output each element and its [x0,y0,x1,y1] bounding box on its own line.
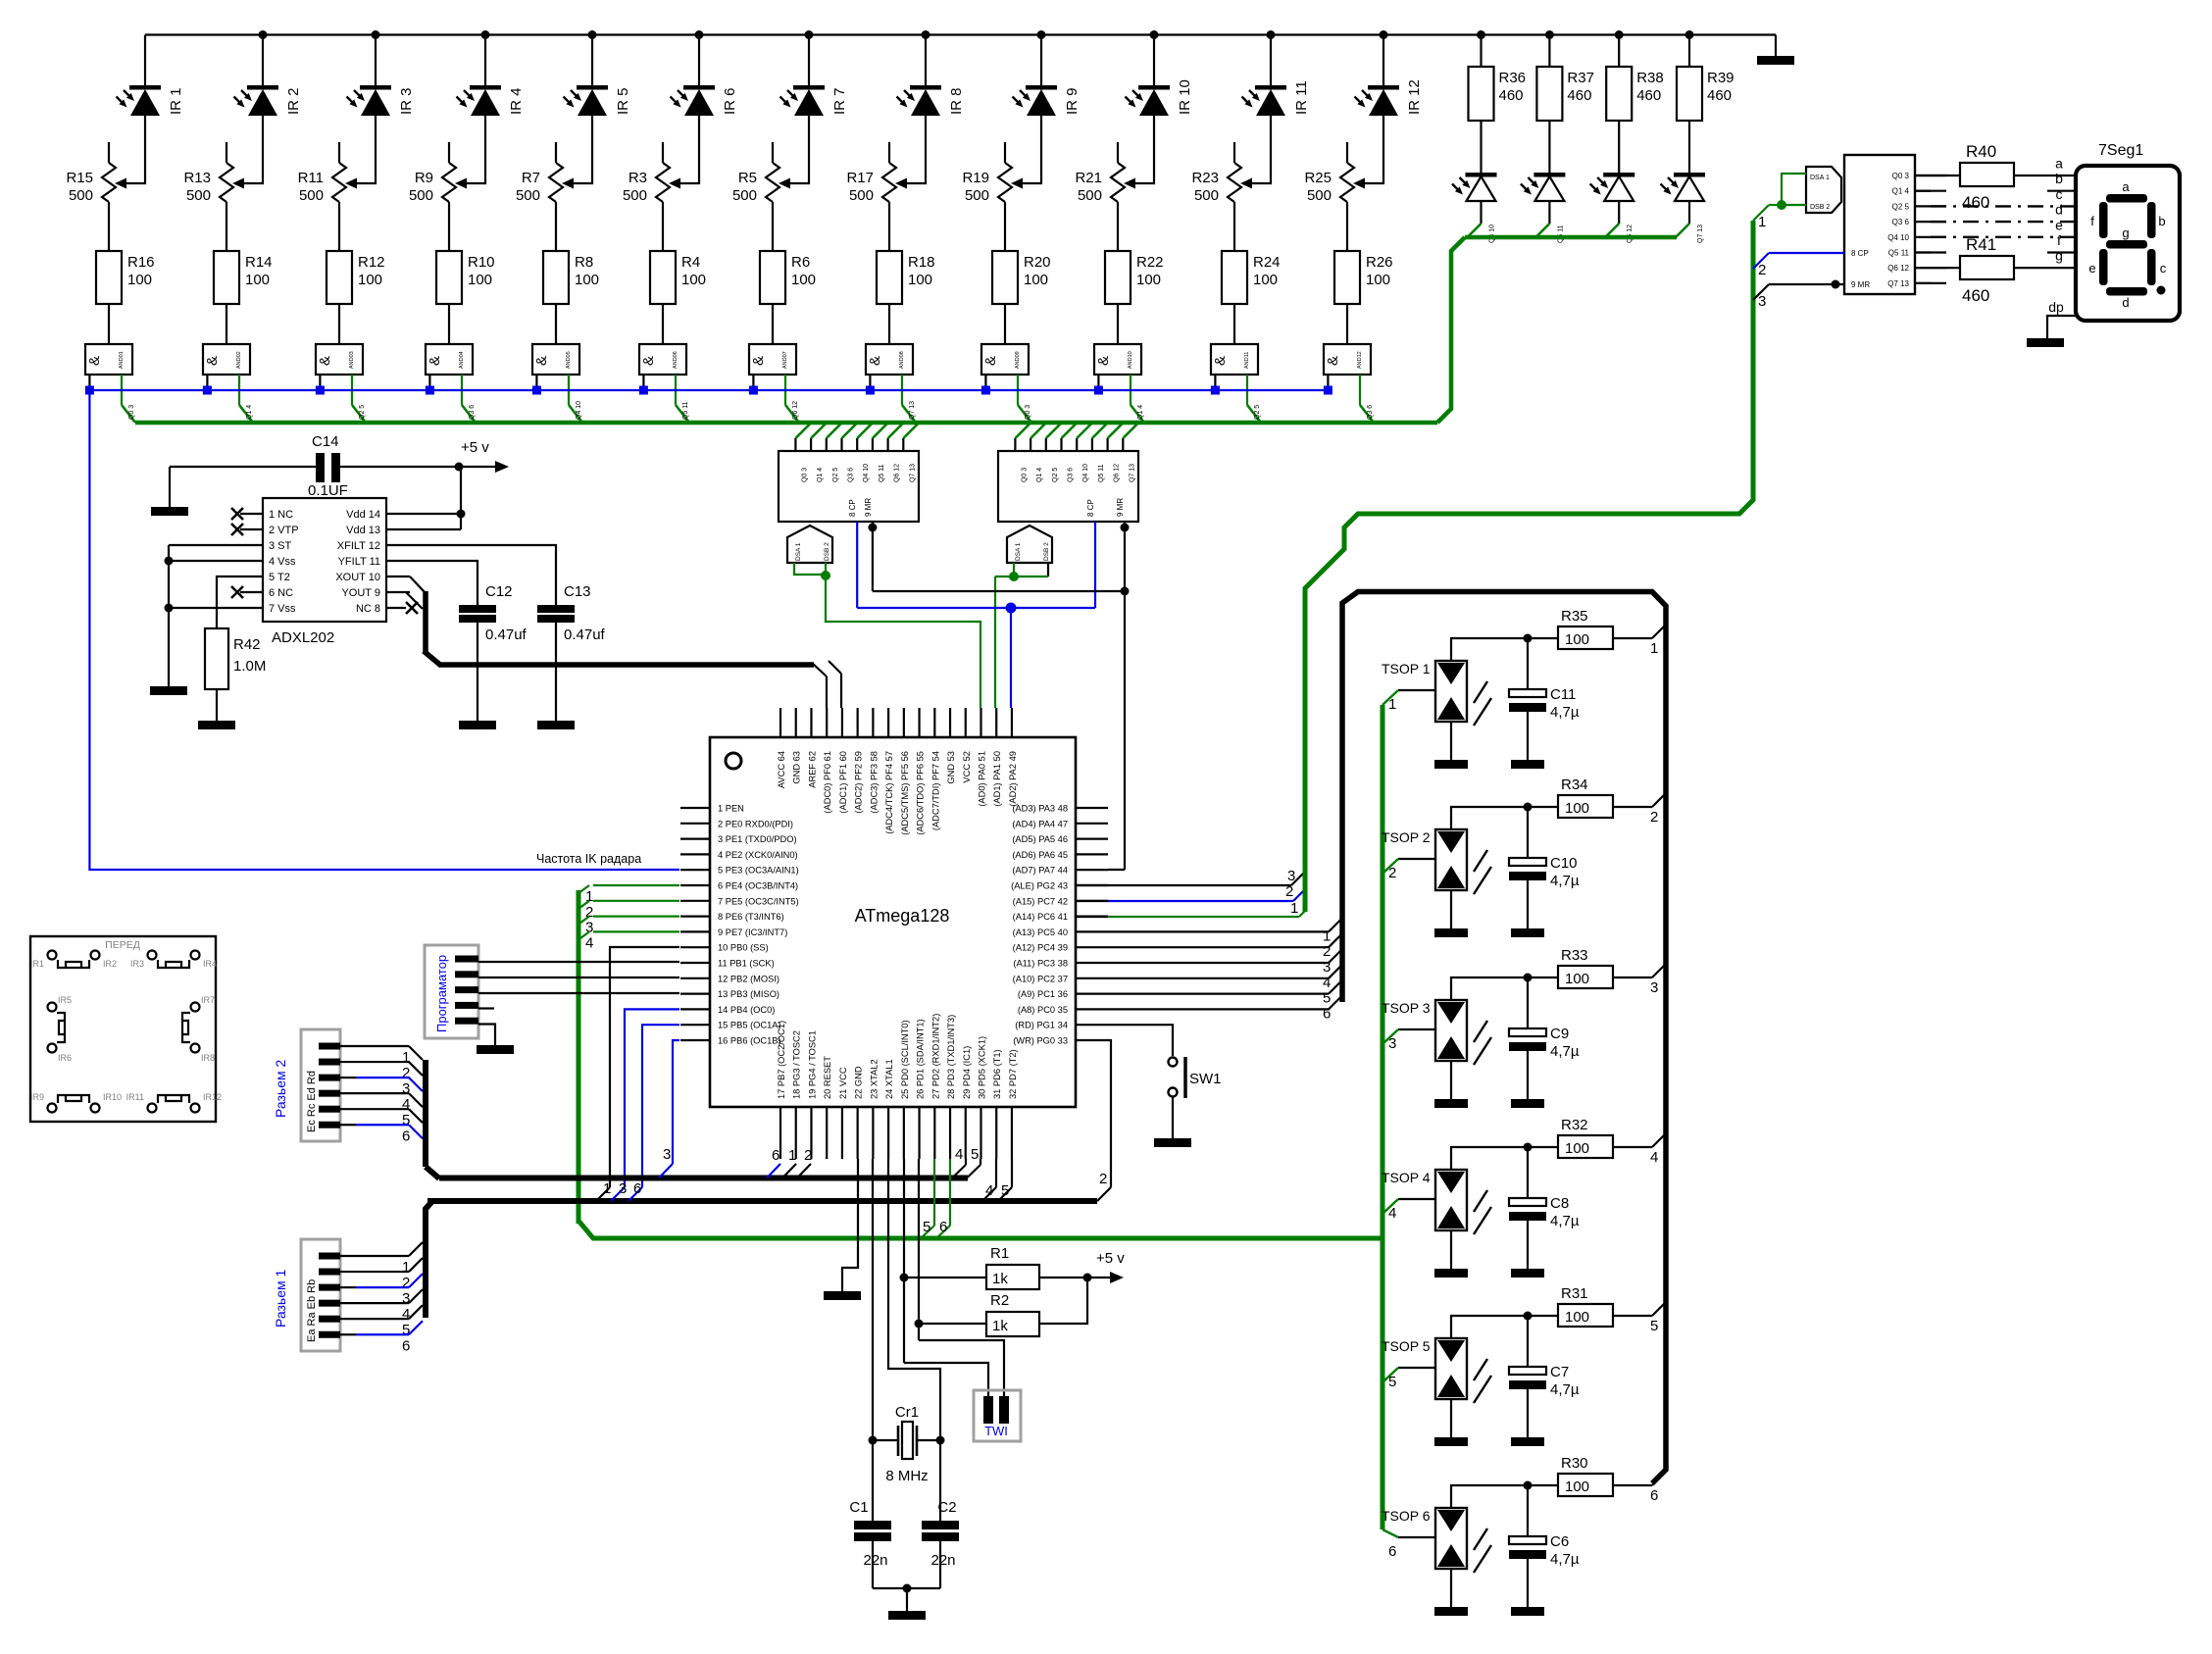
svg-text:6: 6 [402,1337,410,1354]
node blue bus junction ch8 [866,386,875,395]
svg-text:Q0 3: Q0 3 [128,405,135,420]
wire R26 to AND gate [1346,304,1348,344]
pin 2 VTP of ADXL202 [240,528,263,530]
wire AND05 output B to green bus, net Q4 10 [568,375,570,405]
wire MR to ATmega pin 44 [1124,591,1126,870]
svg-text:DSA 1: DSA 1 [795,542,802,561]
LED indicator 3 [1603,173,1634,177]
LED IR8 [910,85,941,90]
node bus junction R38 [1615,30,1624,39]
wire PB6 OC1B blue [673,1040,679,1164]
no-connect cross [231,524,243,535]
svg-text:(ADC0) PF0 61: (ADC0) PF0 61 [823,751,832,814]
LED IR11 [1255,85,1286,90]
svg-text:2 PE0 RXD0/(PDI): 2 PE0 RXD0/(PDI) [718,819,793,828]
wire LED 2 to green bus, net Q5 11 [1548,201,1550,224]
wire U2 output Q7 13 to green bus [1122,438,1124,451]
wire U1 output Q4 10 to green bus [856,438,858,451]
svg-text:2: 2 [804,1147,812,1164]
ground C11 [1511,760,1544,769]
wire LED 1 to green bus, net Q4 10 [1480,201,1482,224]
svg-text:9 MR: 9 MR [1851,280,1870,289]
svg-text:R11: R11 [298,170,324,186]
wire channel 1 from bus to LED [144,35,146,88]
wire U2 output Q4 10 to green bus [1076,438,1078,451]
svg-text:500: 500 [1078,187,1102,204]
wire green bus riser connecting AND bus to LED bus [1437,237,1465,423]
svg-text:R17: R17 [846,170,874,186]
svg-text:C8: C8 [1550,1195,1569,1212]
ground C13 [537,721,575,729]
wire ST/Vss to ground rail [169,544,240,546]
svg-text:Q6 12: Q6 12 [1114,464,1121,482]
wire green bus (register outputs) [135,421,1437,426]
svg-text:DSB 2: DSB 2 [1810,204,1830,211]
wire net3 MR to U3 [1753,284,1769,300]
potentiometer R21 500 [1117,142,1119,163]
segment c [2147,249,2156,285]
wire channel 3 from bus to LED [375,35,377,88]
svg-text:IR10: IR10 [103,1092,122,1102]
svg-text:TWI: TWI [984,1424,1008,1438]
svg-text:(ADC2) PF2 59: (ADC2) PF2 59 [854,751,864,814]
pin 3 PE1 (TXD0/PDO) of ATmega128 [680,837,710,839]
crystal Cr1 8 MHz [873,1439,898,1441]
wire TSOP 3 input from green bus [1398,1028,1435,1030]
svg-text:500: 500 [1194,187,1219,204]
svg-text:100: 100 [1565,1140,1589,1157]
pin (A10) PC2 37 of ATmega128 [1076,977,1108,979]
svg-text:1: 1 [1650,640,1658,657]
wire TSOP 6 input from green bus [1398,1536,1435,1538]
ground C8 [1511,1269,1544,1278]
pin 6 NC of ADXL202 [240,591,263,593]
wire AND11 output A to blue bus [1214,375,1216,390]
svg-text:22 GND: 22 GND [854,1066,864,1099]
svg-text:(AD0) PA0 51: (AD0) PA0 51 [977,751,986,807]
wire LED 3 to green bus, net Q6 12 [1618,201,1620,224]
svg-text:Q7 13: Q7 13 [909,401,916,420]
pin (WR) PG0 33 of ATmega128 [1076,1039,1108,1041]
svg-text:R33: R33 [1561,947,1588,964]
wire U1 output Q5 11 to green bus [872,438,874,451]
svg-text:&: & [640,356,657,366]
pin 12 PB2 (MOSI) of ATmega128 [680,977,710,979]
wire bus2 taps [596,1187,610,1201]
svg-text:1: 1 [1323,927,1331,944]
wire U2 output Q5 11 to green bus [1091,438,1093,451]
segment d [2106,287,2147,296]
LED IR12 [1368,85,1399,90]
svg-text:500: 500 [965,187,989,204]
svg-text:IR4: IR4 [203,959,217,969]
wire AND06 output A to blue bus [642,375,644,390]
capacitor C11 4,7u [1527,638,1529,689]
wire green TSOP bus [1381,705,1385,1529]
svg-text:14 PB4 (OC0): 14 PB4 (OC0) [718,1005,775,1015]
wire AND08 output B to green bus, net Q7 13 [901,375,903,405]
svg-text:AND06: AND06 [673,351,679,369]
wire AND04 output B to green bus, net Q3 6 [461,375,463,405]
svg-text:AND02: AND02 [236,351,242,369]
wire pin Q7 stub [1915,282,1931,284]
svg-text:Q5 11: Q5 11 [1098,464,1105,482]
svg-text:IR1: IR1 [30,959,44,969]
wire TSOP 4 out to R and C [1451,1147,1558,1170]
svg-text:R2: R2 [990,1292,1009,1309]
svg-text:4: 4 [985,1182,993,1199]
svg-text:AND10: AND10 [1128,351,1133,369]
pin 5 of Разьем 1 [319,1316,340,1323]
svg-text:IR5: IR5 [58,995,72,1005]
no-connect cross [231,586,243,598]
svg-text:5: 5 [1650,1318,1658,1334]
wire IR6 cathode to pot wiper [673,116,699,183]
svg-text:IR 11: IR 11 [1293,80,1310,115]
wire AND04 output A to blue bus [428,375,430,390]
pin (A13) PC5 40 of ATmega128 [1076,930,1108,932]
wire top supply bus [145,33,1776,35]
pin 11 PB1 (SCK) of ATmega128 [680,962,710,964]
pin (A12) PC4 39 of ATmega128 [1076,946,1108,948]
svg-text:R39: R39 [1707,70,1734,86]
svg-text:R32: R32 [1561,1117,1588,1133]
svg-text:Q5 11: Q5 11 [1557,225,1564,243]
wire Програматор pin5 to ground [478,1025,495,1046]
svg-text:0.1UF: 0.1UF [308,482,348,499]
svg-text:3: 3 [619,1180,627,1197]
wire R16 to AND gate [108,304,110,344]
svg-text:(A13) PC5 40: (A13) PC5 40 [1013,927,1068,937]
pin 19 PG4 / TOSC1 of ATmega128 [810,1107,812,1159]
svg-text:IR 9: IR 9 [1064,87,1081,115]
svg-text:4,7µ: 4,7µ [1550,1381,1580,1398]
wire PD1 SDA down [918,1159,920,1340]
component IR5/IR6 [48,1003,57,1012]
pin 10 PB0 (SS) of ATmega128 [680,946,710,948]
svg-text:6: 6 [1650,1487,1658,1504]
svg-text:c: c [2160,261,2167,276]
wire U1 output Q7 13 to green bus [902,438,904,451]
svg-text:C14: C14 [312,433,339,450]
resistor R41 460 [1915,267,1960,269]
svg-text:(WR) PG0 33: (WR) PG0 33 [1013,1036,1068,1046]
svg-text:(ADC4/TCK) PF4 57: (ADC4/TCK) PF4 57 [884,751,894,834]
resistor R6 100 [760,251,785,304]
svg-text:R15: R15 [66,170,93,186]
wire U2 DSA/DSB to ATmega PA1, net DS2 [1013,563,1015,576]
pin 7 Vss of ADXL202 [240,607,263,609]
node blue bus junction ch1 [85,386,94,395]
svg-text:100: 100 [575,272,599,288]
svg-text:R25: R25 [1304,170,1332,186]
svg-text:AND01: AND01 [119,351,125,369]
svg-text:4: 4 [1650,1149,1658,1166]
svg-text:R40: R40 [1966,142,1996,161]
svg-text:Q3 6: Q3 6 [469,405,476,420]
node junction TSOP 3 [1524,974,1533,982]
wire U1 output Q6 12 to green bus [886,438,888,451]
capacitor C1 22n [872,1440,874,1521]
svg-text:8 CP: 8 CP [1851,249,1869,258]
pin 16 PB6 (OC1B) of ATmega128 [680,1039,710,1041]
component IR3/IR4 [148,951,157,960]
shift register U1 [779,451,919,522]
wire PD2/PD3 green taps to green bus [933,1159,935,1226]
wire SW1 to ground [1172,1097,1174,1138]
svg-text:C9: C9 [1550,1026,1569,1042]
svg-text:1k: 1k [992,1271,1008,1287]
wire R22 to AND gate [1117,304,1119,344]
pin 4 of Разьем 1 [319,1300,340,1307]
pin 7 PE5 (OC3C/INT5) of ATmega128 [680,900,710,902]
capacitor C12 0.47uf [459,605,496,613]
svg-text:(AD2) PA2 49: (AD2) PA2 49 [1008,751,1018,807]
AND gate AND04 [426,344,473,375]
wire bundle Разьем 1 to bus2 [426,1201,432,1318]
svg-text:Q3 6: Q3 6 [1892,218,1910,226]
svg-text:3: 3 [1388,1035,1396,1052]
svg-text:4: 4 [585,934,593,951]
svg-text:7 Vss: 7 Vss [269,603,296,615]
ground C7 [1511,1437,1544,1446]
pin 5 PE3 (OC3A/AIN1) of ATmega128 [680,869,710,871]
pin Q4 10 of U3 [1915,236,1946,238]
pin VCC 52 of ATmega128 [965,708,967,737]
resistor R42 1.0M [205,628,228,689]
svg-text:b: b [2158,214,2165,228]
resistor R4 100 [650,251,676,304]
svg-text:IR 1: IR 1 [168,87,184,115]
node +5v junction [455,463,464,472]
wire PB4 OC0 blue [625,1009,679,1187]
svg-text:GND 53: GND 53 [946,751,956,784]
wire bus2 right end to PG0 [1097,1187,1111,1201]
svg-text:R21: R21 [1075,170,1102,186]
svg-text:(ALE) PG2 43: (ALE) PG2 43 [1011,881,1068,891]
node MR dot U1 [868,524,877,532]
node blue bus junction ch2 [203,386,212,395]
svg-text:3: 3 [1287,868,1295,884]
board outline ПЕРЕД [30,936,216,1122]
node +5v junction R1 [1083,1274,1092,1282]
svg-text:dp: dp [2048,299,2064,315]
pin Vdd 14 of ADXL202 [386,513,410,515]
svg-text:1 PEN: 1 PEN [718,804,744,814]
wire pin f stub [1915,251,1931,253]
ground pin22 [824,1291,861,1300]
wire U2 output Q2 5 to green bus [1045,438,1047,451]
AND gate AND03 [316,344,363,375]
svg-text:ADXL202: ADXL202 [272,629,334,646]
ground C12 [459,721,496,729]
svg-text:Q4 10: Q4 10 [863,464,870,482]
svg-text:6: 6 [939,1219,947,1235]
ground TSOP 6 [1434,1607,1468,1616]
wire PB5 OC1A blue [642,1025,679,1187]
node blue bus junction ch6 [639,386,648,395]
svg-text:17 PB7 (OC2/OC1): 17 PB7 (OC2/OC1) [777,1021,786,1099]
wire green bundle corner to bottom bus [578,1221,1384,1238]
svg-text:15 PB5 (OC1A): 15 PB5 (OC1A) [718,1021,781,1030]
svg-text:460: 460 [1636,87,1661,104]
node bus junction R37 [1545,30,1554,39]
svg-text:R18: R18 [908,254,935,271]
svg-text:6: 6 [1388,1543,1396,1560]
svg-text:460: 460 [1962,286,1989,305]
wire Vdd rail [460,467,462,529]
pin (AD4) PA4 47 of ATmega128 [1076,823,1108,825]
wire channel 7 from bus to LED [808,35,810,88]
pin (ADC0) PF0 61 of ATmega128 [826,708,828,737]
wire Разьем 2 pin 1 [340,1045,409,1047]
node crystal right [936,1436,945,1445]
svg-text:Q6 12: Q6 12 [1627,225,1634,243]
svg-text:Q2 5: Q2 5 [1052,468,1059,482]
svg-text:Q3 6: Q3 6 [848,468,855,482]
node SDA-R2 junction [915,1320,924,1328]
svg-text:500: 500 [732,187,757,204]
pin 28 PD3 (TXD1/INT3) of ATmega128 [949,1107,951,1159]
svg-text:Частота IK радара: Частота IK радара [536,852,641,866]
svg-text:22n: 22n [863,1552,887,1569]
svg-text:ATmega128: ATmega128 [855,906,950,926]
wire U2 output Q6 12 to green bus [1106,438,1108,451]
svg-text:3 PE1 (TXD0/PDO): 3 PE1 (TXD0/PDO) [718,834,797,844]
LED IR1 [129,85,161,90]
LED IR3 [360,85,391,90]
pin GND 53 of ATmega128 [949,708,951,737]
pin 30 PD5 (XCK1) of ATmega128 [980,1107,981,1159]
node bus junction ch12 [1380,30,1388,39]
potentiometer R15 500 [108,142,110,163]
svg-text:20 RESET: 20 RESET [823,1056,832,1099]
wire TSOP bundle border [1342,592,1666,1484]
pin 3 of Програматор [455,986,478,993]
wire TSOP 1 to ground [1450,722,1452,760]
svg-text:(AD1) PA1 50: (AD1) PA1 50 [992,751,1002,807]
svg-text:AREF 62: AREF 62 [807,751,817,788]
wire pin d dash-dot [1931,221,2076,223]
svg-text:21 VCC: 21 VCC [838,1067,848,1099]
AND gate AND07 [749,344,796,375]
svg-text:R26: R26 [1366,254,1393,271]
svg-text:100: 100 [1565,800,1589,817]
wire MR net [872,522,874,591]
connector DSA/DSB of U3 [1806,167,1841,213]
node junction TSOP 4 [1524,1143,1533,1152]
svg-text:IR3: IR3 [130,959,144,969]
ground TSOP 2 [1434,928,1468,937]
node junction TSOP 1 [1524,634,1533,643]
svg-text:32 PD7 (T2): 32 PD7 (T2) [1008,1049,1018,1099]
svg-text:500: 500 [299,187,324,204]
svg-text:DSA 1: DSA 1 [1810,175,1830,181]
svg-text:500: 500 [1307,187,1332,204]
wire A15 PC7 42 blue net 2 [1076,900,1108,902]
resistor R35 100 [1558,627,1613,649]
potentiometer R3 500 [662,142,664,163]
svg-text:Q0 3: Q0 3 [1892,172,1910,180]
pin 18 PG3 / TOSC2 of ATmega128 [795,1107,797,1159]
svg-text:4: 4 [955,1146,963,1163]
svg-text:e: e [2088,261,2095,276]
pin (ADC4/TCK) PF4 57 of ATmega128 [887,708,889,737]
node blue bus junction ch12 [1324,386,1332,395]
resistor R37 460 [1548,35,1550,68]
svg-text:R24: R24 [1253,254,1281,271]
pin AREF 62 of ATmega128 [810,708,812,737]
wire Разьем 2 pin 4 [340,1092,409,1094]
wire AND12 output A to blue bus [1327,375,1329,390]
node bus junction ch3 [372,30,380,39]
power +5 v arrow (pullups) [1087,1277,1114,1278]
svg-text:GND 63: GND 63 [792,751,802,784]
resistor R22 100 [1105,251,1131,304]
svg-text:&: & [317,356,333,366]
svg-text:1: 1 [1388,696,1396,713]
pin 1 of Програматор [455,956,478,963]
svg-text:R19: R19 [962,170,989,186]
svg-text:Разьем 1: Разьем 1 [273,1269,288,1328]
svg-text:R12: R12 [358,254,385,271]
AND gate AND11 [1211,344,1258,375]
resistor R20 100 [992,251,1018,304]
svg-text:Ec Rc Ed Rd: Ec Rc Ed Rd [306,1071,318,1132]
potentiometer R23 500 [1233,142,1235,163]
svg-text:IR 8: IR 8 [948,87,965,115]
svg-text:3: 3 [1758,293,1766,310]
wire IR7 cathode to pot wiper [782,116,809,183]
svg-text:IR8: IR8 [201,1053,215,1063]
wire bundle Разьем 2 to bus1 [423,1060,428,1167]
wire TSOP 6 out to R and C [1451,1485,1558,1508]
svg-text:&: & [982,356,999,366]
wire IR5 cathode to pot wiper [566,116,592,183]
wire CP net (blue) [856,522,858,608]
svg-text:30 PD5 (XCK1): 30 PD5 (XCK1) [977,1036,986,1099]
wire Програматор to PB1 SCK [478,961,679,963]
svg-text:5: 5 [1323,990,1331,1007]
svg-text:Програматор: Програматор [434,955,449,1032]
no-connect cross [231,508,243,520]
wire net2 CP to U3 (blue) [1753,253,1769,269]
wire green bundle nets 1-4 from PE4-PE7 [593,884,679,886]
node blue bus junction ch7 [749,386,758,395]
wire channel 9 from bus to LED [1040,35,1042,88]
svg-text:8 PE6 (T3/INT6): 8 PE6 (T3/INT6) [718,912,784,922]
capacitor C6 4,7u [1527,1485,1529,1536]
resistor R2 1k [919,1323,986,1325]
pin 27 PD2 (RXD1/INT2) of ATmega128 [933,1107,935,1159]
svg-text:AND05: AND05 [566,351,572,369]
svg-text:6 NC: 6 NC [269,587,293,599]
wire XTAL2 to crystal [872,1159,874,1440]
pin (A15) PC7 42 of ATmega128 [1076,900,1108,902]
resistor R31 100 [1558,1304,1613,1327]
pin Vdd 13 of ADXL202 [386,528,410,530]
pin 6 of Разьем 2 [319,1122,340,1128]
svg-text:6: 6 [772,1147,779,1164]
pin (AD7) PA7 44 of ATmega128 [1076,869,1108,871]
resistor R24 100 [1222,251,1247,304]
svg-text:Q6 12: Q6 12 [894,464,901,482]
svg-text:AND08: AND08 [899,351,905,369]
svg-text:(AD4) PA4 47: (AD4) PA4 47 [1012,819,1068,828]
svg-text:100: 100 [1366,272,1390,288]
svg-text:IR 12: IR 12 [1406,79,1423,115]
segment e [2099,249,2108,285]
